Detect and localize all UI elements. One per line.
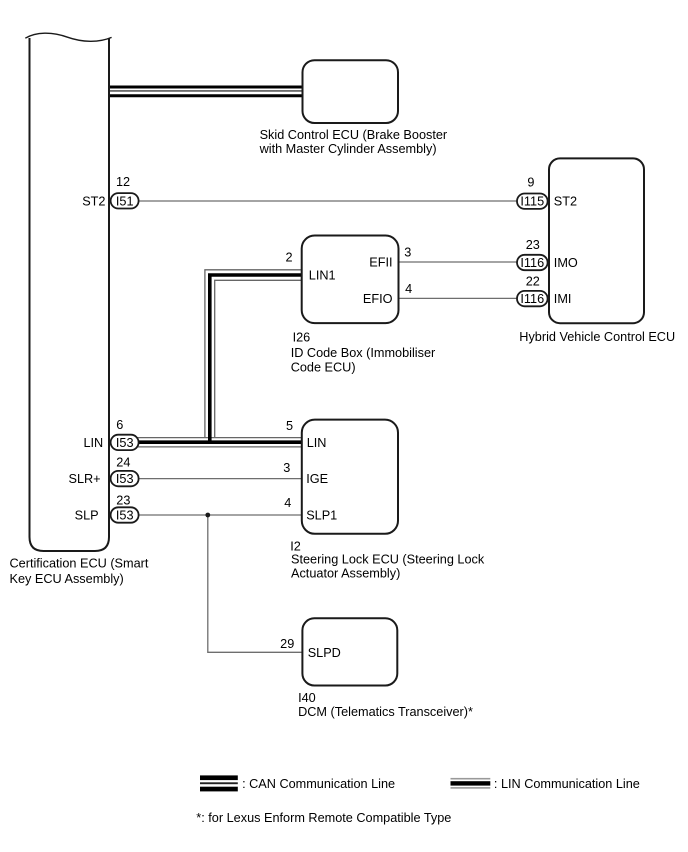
svg-text:I40: I40 bbox=[298, 691, 316, 705]
svg-text:SLPD: SLPD bbox=[308, 646, 341, 660]
svg-text:3: 3 bbox=[283, 461, 290, 475]
svg-text:4: 4 bbox=[284, 496, 291, 510]
label I40 DCM (Telematics Transceiver)* bbox=[298, 691, 473, 719]
CAN wire (Certification ECU to Skid Control ECU) bbox=[109, 87, 303, 96]
svg-text:Actuator Assembly): Actuator Assembly) bbox=[291, 567, 400, 581]
svg-text:Steering Lock ECU (Steering Lo: Steering Lock ECU (Steering Lock bbox=[291, 553, 485, 567]
legend LIN line symbol bbox=[451, 778, 491, 789]
svg-text:23: 23 bbox=[526, 238, 540, 252]
svg-text:5: 5 bbox=[286, 419, 293, 433]
LIN wire branch (LIN1 to main LIN line) bbox=[205, 270, 302, 442]
Steering Lock ECU box bbox=[302, 420, 398, 534]
svg-text:ID Code Box (Immobiliser: ID Code Box (Immobiliser bbox=[291, 346, 436, 360]
svg-text:23: 23 bbox=[116, 494, 130, 508]
LIN wire (I53 pin 6 to Steering Lock ECU pin 5) bbox=[125, 438, 302, 447]
label Certification ECU (Smart Key ECU Assembly) bbox=[10, 557, 149, 586]
svg-text:22: 22 bbox=[526, 275, 540, 289]
connector I115 bbox=[517, 194, 548, 209]
wire EFII to IMO bbox=[399, 261, 533, 263]
connector I53 (LIN pin 6) bbox=[111, 435, 139, 450]
svg-text:with Master Cylinder Assembly): with Master Cylinder Assembly) bbox=[259, 142, 437, 156]
ID Code Box (I26) box bbox=[302, 236, 399, 324]
connector I51 bbox=[111, 193, 139, 208]
label I2 Steering Lock ECU (Steering Lock Actuator Assembly) bbox=[290, 540, 485, 581]
svg-text:4: 4 bbox=[405, 282, 412, 296]
svg-text:IMO: IMO bbox=[554, 256, 578, 270]
svg-text:I53: I53 bbox=[116, 472, 134, 486]
svg-text:6: 6 bbox=[116, 418, 123, 432]
connector I116 (IMO) bbox=[517, 255, 548, 270]
svg-text:I2: I2 bbox=[290, 540, 301, 554]
svg-text:29: 29 bbox=[280, 637, 294, 651]
svg-text:24: 24 bbox=[116, 456, 130, 470]
svg-text:IGE: IGE bbox=[306, 472, 328, 486]
svg-text:LIN: LIN bbox=[307, 436, 327, 450]
svg-text:12: 12 bbox=[116, 175, 130, 189]
svg-text:I53: I53 bbox=[116, 436, 134, 450]
label I26 ID Code Box (Immobiliser Code ECU) bbox=[291, 330, 436, 374]
svg-text:IMI: IMI bbox=[554, 292, 572, 306]
svg-text:Code ECU): Code ECU) bbox=[291, 360, 356, 374]
junction node on SLP wire bbox=[205, 513, 210, 518]
Certification ECU box (torn-top rectangle) bbox=[25, 33, 111, 551]
svg-text:ST2: ST2 bbox=[554, 195, 577, 209]
svg-text:SLR+: SLR+ bbox=[69, 472, 101, 486]
svg-text:Skid Control ECU (Brake Booste: Skid Control ECU (Brake Booster bbox=[260, 128, 448, 142]
svg-text:9: 9 bbox=[527, 176, 534, 190]
svg-text:LIN1: LIN1 bbox=[309, 269, 336, 283]
svg-text:LIN: LIN bbox=[83, 436, 103, 450]
svg-text:Key ECU Assembly): Key ECU Assembly) bbox=[10, 572, 124, 586]
wire EFIO to IMI bbox=[399, 297, 533, 299]
svg-text:I53: I53 bbox=[116, 509, 134, 523]
svg-text:EFII: EFII bbox=[369, 256, 392, 270]
wire ST2 (I51 to I115) bbox=[125, 200, 532, 202]
Skid Control ECU box bbox=[303, 60, 399, 123]
svg-text:Certification ECU (Smart: Certification ECU (Smart bbox=[10, 557, 149, 571]
legend CAN line symbol bbox=[200, 775, 238, 791]
wire SLP to SLP1 bbox=[125, 514, 302, 516]
svg-text:SLP1: SLP1 bbox=[306, 509, 337, 523]
wire SLP branch to SLPD bbox=[208, 515, 303, 652]
svg-text:*: for Lexus Enform Remote Com: *: for Lexus Enform Remote Compatible Ty… bbox=[196, 811, 451, 825]
connector I53 (SLR+ pin 24) bbox=[111, 471, 139, 486]
connector I116 (IMI) bbox=[517, 291, 548, 306]
svg-text:I116: I116 bbox=[520, 256, 544, 270]
svg-text:2: 2 bbox=[286, 251, 293, 265]
svg-text:I115: I115 bbox=[520, 195, 544, 209]
DCM box bbox=[302, 618, 397, 685]
svg-text:I51: I51 bbox=[116, 194, 134, 208]
Hybrid Vehicle Control ECU box bbox=[549, 158, 644, 323]
svg-text:Hybrid Vehicle Control ECU: Hybrid Vehicle Control ECU bbox=[519, 330, 675, 344]
svg-text:ST2: ST2 bbox=[82, 194, 105, 208]
svg-text:DCM (Telematics Transceiver)*: DCM (Telematics Transceiver)* bbox=[298, 705, 473, 719]
wire SLR+ to IGE bbox=[125, 478, 302, 480]
label Skid Control ECU (Brake Booster with Master Cylinder Assembly) bbox=[259, 128, 448, 156]
svg-text:: LIN Communication Line: : LIN Communication Line bbox=[494, 777, 640, 791]
svg-text:3: 3 bbox=[404, 246, 411, 260]
svg-text:I26: I26 bbox=[293, 330, 311, 344]
svg-text:: CAN Communication Line: : CAN Communication Line bbox=[242, 777, 395, 791]
connector I53 (SLP pin 23) bbox=[111, 507, 139, 522]
svg-text:SLP: SLP bbox=[75, 509, 99, 523]
svg-text:I116: I116 bbox=[520, 292, 544, 306]
svg-text:EFIO: EFIO bbox=[363, 292, 393, 306]
